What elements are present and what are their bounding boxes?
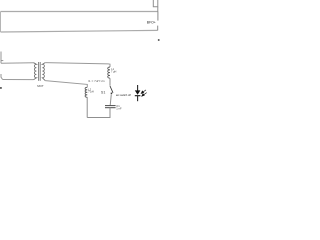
svg-text:BFO+: BFO+ (147, 21, 156, 25)
label L1 (111, 68, 114, 71)
svg-text:7 μH: 7 μH (111, 71, 117, 74)
label L2 (88, 88, 91, 91)
LED D1 cathode bar (135, 95, 141, 97)
label gray inductance note (88, 79, 105, 83)
switch state label (116, 93, 131, 97)
svg-text:MOT: MOT (37, 84, 44, 88)
LED D1 bottom lead (137, 96, 139, 102)
switch S1 blade (110, 86, 113, 93)
node BFO+ label (147, 21, 156, 25)
inductor L1 (108, 67, 110, 78)
text fragment left edge (0, 87, 2, 89)
LED D1 top lead (137, 85, 139, 91)
wire BFO+ upper stub (157, 12, 159, 21)
transformer label MOT (37, 84, 44, 88)
transformer MOT secondary winding (42, 63, 45, 81)
svg-text:arc switch off: arc switch off (116, 93, 131, 97)
wire second rail (1, 30, 158, 32)
component box (clipped at top edge) (153, 0, 158, 7)
label C1 (116, 104, 120, 108)
wire secondary bottom sloped to L2 (45, 81, 87, 88)
LED arrow 1 (142, 90, 147, 93)
wire top rail (1, 11, 159, 13)
capacitor C1 top plate (105, 105, 116, 107)
svg-text:S1: S1 (101, 90, 105, 94)
wire left lower stub with jog (1, 74, 3, 80)
wire left antenna stub (0, 52, 2, 64)
inductor L2 (85, 87, 87, 97)
wire switch to capacitor (110, 94, 111, 105)
label L2 value (88, 91, 94, 94)
node dot right edge (158, 39, 160, 41)
transformer MOT primary winding (34, 63, 37, 80)
wire L2 bottom (86, 97, 88, 117)
svg-text:C1: C1 (116, 104, 120, 108)
switch name label (101, 90, 105, 94)
wire primary bottom (3, 79, 34, 81)
wire left connector between rails (0, 12, 2, 33)
label C1 value (116, 107, 122, 111)
wire capacitor down and left (87, 108, 110, 118)
capacitor C1 bottom plate (105, 107, 116, 109)
transformer MOT core (38, 62, 40, 81)
svg-text:7 μH: 7 μH (88, 91, 94, 94)
svg-text:l1 = 7uH Un: l1 = 7uH Un (88, 79, 105, 83)
wire secondary top to L1 (45, 63, 110, 67)
LED D1 triangle (135, 90, 141, 94)
wire BFO+ lower stub (157, 26, 159, 31)
wire box to top rail (157, 7, 159, 12)
label L1 value (111, 71, 117, 74)
LED arrow 2 (142, 93, 147, 96)
wire L1 to switch (109, 78, 111, 86)
node tick on left stub (1, 60, 3, 62)
wire primary top (1, 62, 34, 65)
switch bottom post dot (111, 93, 113, 95)
